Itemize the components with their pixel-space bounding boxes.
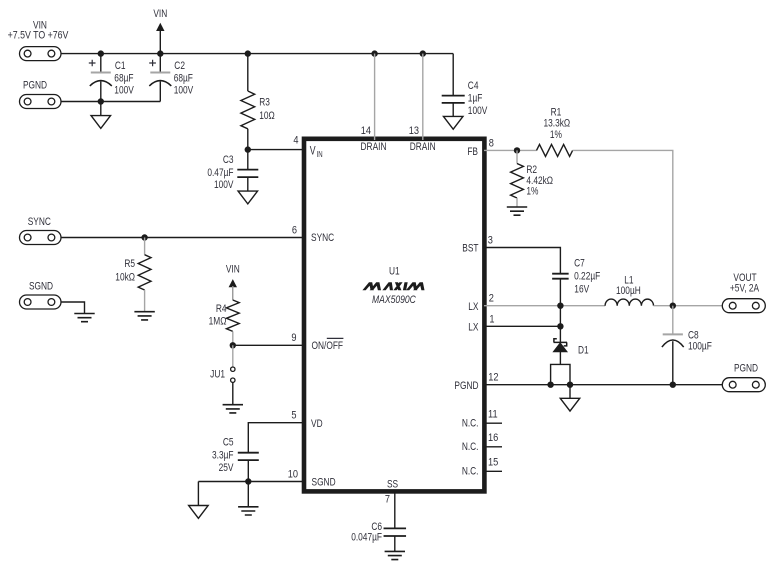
svg-text:N.C.: N.C. (462, 466, 479, 478)
node VIN-R3 (245, 50, 251, 56)
svg-text:2: 2 (489, 293, 494, 305)
node R4-JU1 (230, 342, 236, 348)
svg-text:MAX5090C: MAX5090C (372, 294, 417, 306)
svg-text:11: 11 (488, 409, 498, 421)
wire to ground (100, 102, 102, 116)
svg-text:8: 8 (489, 138, 494, 150)
wire pin15 stub (484, 470, 502, 472)
svg-text:4: 4 (293, 135, 298, 147)
ground earth R2 (507, 207, 527, 215)
svg-text:C4: C4 (468, 80, 479, 92)
wire VIN rail (61, 53, 454, 55)
svg-text:DRAIN: DRAIN (410, 141, 436, 153)
inductor L1 (605, 299, 653, 306)
node rail-pin14 (371, 50, 377, 56)
wire down to triangle ground (197, 482, 199, 506)
svg-text:9: 9 (291, 332, 296, 344)
svg-text:V: V (310, 146, 316, 158)
wire down to earth ground (247, 482, 249, 507)
svg-text:R4: R4 (216, 303, 227, 315)
VIN arrow top (159, 30, 161, 54)
svg-text:IN: IN (317, 150, 323, 159)
svg-text:PGND: PGND (23, 79, 47, 91)
svg-text:25V: 25V (219, 462, 234, 474)
connector J-VOUT (722, 299, 765, 313)
wire SGND to ground (61, 302, 85, 314)
svg-text:C7: C7 (574, 257, 585, 269)
svg-text:15: 15 (488, 457, 499, 469)
svg-text:1µF: 1µF (468, 92, 483, 104)
svg-text:1%: 1% (550, 129, 562, 141)
node VIN-C1 (98, 50, 104, 56)
plus sign C1 (89, 60, 96, 67)
svg-text:SS: SS (387, 478, 399, 490)
wire pin14 drain (374, 54, 376, 140)
wire pin10 SGND (198, 481, 305, 483)
wire pin12 PGND (484, 384, 722, 386)
connector J-SYNC (20, 231, 62, 245)
svg-text:1MΩ: 1MΩ (209, 315, 227, 327)
wire pin5 VD to C5 (248, 423, 305, 453)
svg-text:10Ω: 10Ω (259, 110, 275, 122)
wire pin13 drain (422, 54, 424, 140)
capacitor C6 (384, 528, 407, 536)
connector J-SGND (20, 295, 62, 309)
svg-text:6: 6 (292, 225, 297, 237)
node C8-PGND (670, 382, 676, 388)
node SYNC-R5 (141, 234, 147, 240)
resistor R4 (232, 286, 234, 300)
ground earth JU1 (223, 405, 243, 413)
op IC U1 MAX5090C body (304, 139, 484, 492)
svg-text:+5V, 2A: +5V, 2A (730, 282, 760, 294)
ground triangle C3 (238, 191, 257, 204)
svg-text:7: 7 (385, 494, 390, 506)
svg-text:PGND: PGND (734, 362, 758, 374)
node VOUT (670, 303, 676, 309)
svg-text:0.47µF: 0.47µF (207, 167, 233, 179)
svg-text:VIN: VIN (153, 8, 167, 20)
capacitor C2 (159, 54, 161, 73)
connector J-VIN (20, 47, 62, 61)
node D1a-PGND (547, 382, 553, 388)
svg-text:14: 14 (361, 125, 372, 137)
plus sign C2 (149, 60, 156, 67)
svg-text:0.22µF: 0.22µF (574, 270, 600, 282)
wire pin11 stub (484, 422, 502, 424)
wire pin4 VIN (248, 149, 305, 151)
svg-text:SYNC: SYNC (28, 216, 51, 228)
wire LX node down to D1 (559, 306, 561, 343)
svg-text:100V: 100V (214, 179, 234, 191)
wire pin9 ON/OFF (233, 344, 305, 346)
svg-text:5: 5 (291, 410, 296, 422)
svg-text:10kΩ: 10kΩ (115, 271, 135, 283)
svg-text:LX: LX (468, 301, 479, 313)
capacitor C8 (672, 306, 674, 335)
node C5-SGND (245, 478, 251, 484)
wire pin7 SS to C6 (394, 491, 396, 528)
diode D1 schottky (554, 339, 567, 346)
svg-text:68µF: 68µF (174, 72, 193, 84)
svg-text:100V: 100V (114, 84, 134, 96)
jumper JU1 (232, 345, 234, 367)
svg-text:LX: LX (468, 322, 479, 334)
svg-text:100V: 100V (174, 84, 194, 96)
resistor R3 (247, 54, 249, 91)
wire pin2 LX (484, 305, 605, 307)
wire R1 to output node (573, 150, 673, 305)
ground earth R5 (134, 312, 154, 320)
svg-text:SYNC: SYNC (311, 232, 334, 244)
svg-text:68µF: 68µF (114, 72, 133, 84)
ground triangle C4 (443, 116, 463, 129)
resistor R5 (144, 238, 146, 255)
MAXIM logo (362, 282, 424, 290)
wire rail corner down to C4 (452, 54, 454, 96)
svg-text:C2: C2 (174, 60, 185, 72)
wire L1 to VOUT (654, 305, 723, 307)
svg-text:+7.5V TO +76V: +7.5V TO +76V (8, 29, 69, 41)
node VIN-C2 (157, 50, 163, 56)
svg-text:R3: R3 (259, 96, 270, 108)
svg-text:SGND: SGND (312, 476, 336, 488)
node LX-C7-D1 (557, 303, 563, 309)
svg-text:JU1: JU1 (210, 368, 225, 380)
svg-text:C3: C3 (223, 154, 234, 166)
wire to triangle ground (569, 385, 571, 399)
svg-text:100µF: 100µF (688, 341, 712, 353)
svg-text:BST: BST (462, 242, 478, 254)
svg-text:16: 16 (488, 432, 499, 444)
svg-text:ON/OFF: ON/OFF (312, 340, 344, 352)
svg-text:100V: 100V (468, 105, 488, 117)
resistor R2 (516, 150, 518, 163)
node PGND-C1 (98, 98, 104, 104)
capacitor C7 (552, 274, 569, 279)
resistor R1 (537, 144, 573, 156)
wire pin1 LX (484, 325, 560, 327)
capacitor C4 (442, 96, 465, 103)
capacitor C5 (238, 453, 259, 460)
svg-text:VIN: VIN (226, 264, 240, 276)
svg-text:3: 3 (488, 235, 493, 247)
ground earth SGND (74, 314, 94, 322)
svg-text:N.C.: N.C. (462, 417, 479, 429)
node LX1-D1 (557, 323, 563, 329)
wire PGND to C1/C2 (61, 101, 161, 103)
svg-text:3.3µF: 3.3µF (212, 449, 234, 461)
connector J-PGND-left (20, 95, 62, 109)
svg-text:DRAIN: DRAIN (361, 141, 387, 153)
svg-text:C1: C1 (115, 60, 126, 72)
svg-text:12: 12 (488, 372, 499, 384)
svg-text:10: 10 (288, 469, 299, 481)
svg-text:R5: R5 (124, 258, 135, 270)
svg-text:D1: D1 (578, 344, 589, 356)
svg-text:0.047µF: 0.047µF (351, 532, 382, 544)
svg-text:FB: FB (467, 146, 478, 158)
svg-text:C5: C5 (223, 436, 234, 448)
svg-text:1%: 1% (526, 185, 538, 197)
VIN arrow for R4 (232, 286, 234, 300)
D1 anode staple to PGND (551, 364, 570, 384)
svg-text:16V: 16V (574, 283, 589, 295)
wire pin3 BST to C7 (484, 248, 560, 274)
svg-text:100µH: 100µH (616, 285, 641, 297)
svg-text:1: 1 (489, 314, 494, 326)
ground earth C6 (385, 551, 405, 559)
node R3-C3 (245, 146, 251, 152)
ground earth C5 (238, 507, 258, 515)
wire pin16 stub (484, 446, 502, 448)
capacitor C1 (100, 54, 102, 73)
svg-text:SGND: SGND (29, 280, 53, 292)
svg-text:U1: U1 (389, 265, 400, 277)
ground triangle SGND line (189, 506, 209, 519)
node D1b-PGND (567, 382, 573, 388)
svg-text:VD: VD (311, 418, 323, 430)
svg-text:PGND: PGND (454, 380, 478, 392)
svg-text:N.C.: N.C. (462, 441, 479, 453)
wire pin8 FB (484, 149, 537, 151)
ground triangle C1 (91, 116, 111, 129)
node rail-pin13 (420, 50, 426, 56)
wire SYNC to pin6 (61, 237, 306, 239)
ground triangle PGND (560, 398, 580, 411)
svg-text:13: 13 (409, 125, 420, 137)
connector J-PGND-right (722, 378, 765, 392)
node FB (514, 147, 520, 153)
capacitor C3 (247, 150, 249, 170)
